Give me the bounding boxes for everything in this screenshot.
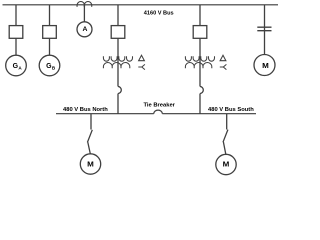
- svg-text:4160 V Bus: 4160 V Bus: [144, 11, 174, 17]
- svg-text:M: M: [87, 161, 94, 168]
- svg-text:480 V Bus North: 480 V Bus North: [63, 107, 108, 113]
- svg-text:M: M: [262, 63, 269, 70]
- svg-text:480 V Bus South: 480 V Bus South: [208, 107, 254, 113]
- svg-text:M: M: [223, 162, 230, 169]
- svg-text:A: A: [83, 26, 88, 33]
- svg-text:Tie Breaker: Tie Breaker: [143, 103, 175, 109]
